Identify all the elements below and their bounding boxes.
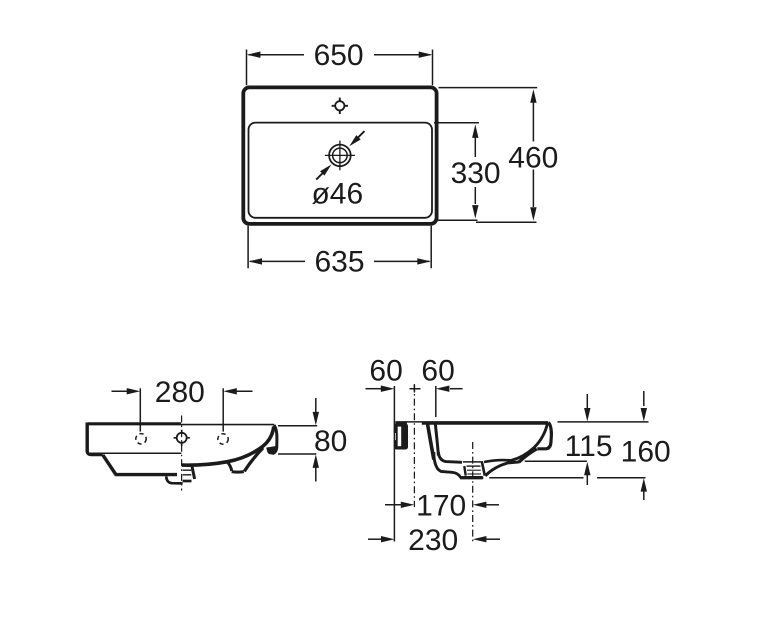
dim 80 extension lines [278, 426, 317, 454]
svg-text:170: 170 [416, 489, 466, 522]
front view siphon pocket bottom [232, 470, 244, 474]
drain leader arrow lower left [316, 165, 331, 180]
dim 635 arrows [249, 258, 263, 264]
svg-text:230: 230 [408, 524, 458, 557]
front view left lip corner [87, 451, 103, 455]
svg-text:60: 60 [421, 355, 454, 388]
section tap hole slot [407, 423, 422, 426]
front view siphon pocket right leg [244, 448, 263, 472]
dim 330 extension lines [434, 123, 479, 220]
dim 650 line [249, 54, 431, 56]
section back wall outer line [428, 424, 434, 459]
dim 650 extension lines [247, 50, 433, 86]
section left extension line [393, 386, 395, 542]
front view bottom flat [115, 473, 178, 476]
dim 115 bottom extension [525, 460, 587, 462]
top view outer body [243, 87, 436, 224]
svg-text:635: 635 [314, 246, 364, 279]
section drain recess bottom [461, 476, 481, 479]
section tap centerline dash-dot [413, 384, 415, 507]
svg-text:460: 460 [508, 141, 558, 174]
section drain recess walls [464, 466, 465, 476]
front view lower left slope [103, 455, 116, 474]
dim 115 160 top extension [558, 421, 649, 423]
dim 280 centerline left [139, 388, 141, 431]
drain hole ø46 [325, 141, 355, 171]
dim 80 arrows [313, 398, 319, 482]
dim 460 extension lines [439, 88, 538, 223]
section bowl bottom left [438, 452, 462, 462]
svg-text:80: 80 [314, 425, 347, 458]
section drain recess seat lines [463, 461, 483, 463]
dim 230 arrows [368, 536, 500, 542]
dim 635 extension lines [248, 226, 431, 268]
dim 460 arrows [530, 89, 536, 103]
dim 160 arrows [641, 391, 647, 500]
faucet hole [332, 98, 348, 114]
svg-text:280: 280 [155, 376, 205, 409]
section outer bottom left [434, 452, 461, 477]
front view hole middle [174, 430, 190, 446]
section right curl interior curve [512, 424, 548, 460]
dim 280 centerline right [222, 388, 224, 431]
drain leader arrow upper right [349, 131, 364, 146]
front view drain boss [166, 466, 194, 484]
section outer bottom right rise [485, 462, 519, 476]
front view left edge [85, 422, 88, 452]
front view center dash-dot line [181, 416, 183, 491]
dim 460 line [532, 102, 534, 207]
front view hole right dashed [218, 434, 228, 444]
section drain centerline dash-dot [472, 442, 474, 542]
top view inner basin rim [249, 123, 433, 218]
svg-text:ø46: ø46 [311, 178, 363, 211]
dim 60 middle tick [410, 385, 421, 393]
dim 115 arrows [584, 394, 590, 485]
front view curl bottom blob [266, 446, 276, 454]
front view right curl outer edge [272, 425, 277, 453]
section right curl outer [537, 423, 551, 449]
svg-text:650: 650 [314, 39, 364, 72]
svg-text:330: 330 [451, 157, 501, 190]
dim 170 arrows [385, 502, 499, 508]
dim 280 arrows [112, 388, 253, 394]
front view hole left dashed [136, 434, 146, 444]
front view siphon pocket left leg [227, 462, 232, 471]
section interior right of drain [484, 460, 513, 462]
front view rim bottom line [89, 452, 181, 454]
dim 330 line [474, 138, 476, 205]
dim 160 bottom extension [489, 477, 645, 479]
svg-text:115: 115 [565, 430, 613, 463]
dim 650 arrows [247, 52, 261, 58]
front view top edge thick [88, 422, 181, 425]
dim 330 arrows [472, 124, 478, 137]
svg-text:60: 60 [369, 355, 402, 388]
front view top edge thin [181, 424, 274, 426]
section back wall inner line [435, 425, 438, 456]
dim 60 right arrow [436, 386, 463, 392]
svg-text:160: 160 [621, 435, 671, 468]
dim 60 left arrow [366, 386, 395, 392]
front view bowl silhouette curve [182, 427, 274, 466]
dim 635 line [250, 260, 430, 262]
section rim top line [395, 421, 548, 425]
section wall bracket [392, 424, 408, 450]
section right 60 extension line [435, 386, 437, 417]
section hook under curl [519, 449, 537, 462]
